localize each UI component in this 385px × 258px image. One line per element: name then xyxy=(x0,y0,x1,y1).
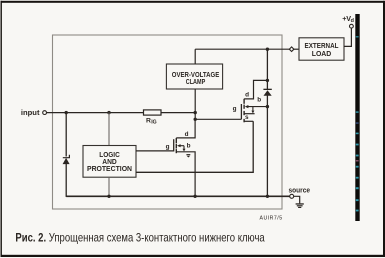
wire logic to Q2 gate xyxy=(136,150,174,152)
svg-text:LOGIC: LOGIC xyxy=(99,152,120,159)
svg-text:g: g xyxy=(233,105,237,112)
svg-text:Рис. 2. Упрощенная схема 3-кон: Рис. 2. Упрощенная схема 3-контактного н… xyxy=(15,232,265,245)
svg-text:input: input xyxy=(21,108,40,117)
junction Q2 source rail xyxy=(193,195,196,198)
svg-text:d: d xyxy=(245,91,249,98)
wire input to resistor xyxy=(47,112,144,114)
svg-text:AUIR7/5: AUIR7/5 xyxy=(260,215,283,221)
junction node resistor/clamp xyxy=(194,111,197,114)
wire node to node vertical xyxy=(194,113,196,120)
Q2 substrate mark xyxy=(186,154,190,157)
wire logic box to rail xyxy=(108,177,110,196)
svg-text:AND: AND xyxy=(102,159,117,166)
external load box xyxy=(299,38,344,60)
svg-text:d: d xyxy=(185,131,189,138)
caption xyxy=(15,232,265,245)
over-voltage clamp box xyxy=(166,64,222,89)
Vdd terminal xyxy=(350,24,354,28)
transistor Q1 (power MOSFET) xyxy=(241,99,267,123)
wire drain column upper xyxy=(266,49,268,89)
svg-text:b: b xyxy=(187,142,191,149)
bottom source rail xyxy=(66,195,289,197)
svg-text:PROTECTION: PROTECTION xyxy=(87,166,132,173)
wire logic to Q1 sense source xyxy=(136,121,253,172)
junction Q1 body / diode xyxy=(266,105,269,108)
logic and protection box U1 xyxy=(83,146,136,178)
wire input node to logic box xyxy=(108,113,110,146)
svg-text:IG: IG xyxy=(151,120,156,126)
svg-text:LOAD: LOAD xyxy=(312,51,332,58)
wire drain column lower to rail xyxy=(266,96,268,197)
svg-text:b: b xyxy=(257,97,261,104)
resistor RIG xyxy=(144,110,162,126)
wire Q1 drain to drain node xyxy=(244,80,267,99)
wire clamp bottom xyxy=(194,89,196,113)
input terminal xyxy=(43,111,47,115)
part number text xyxy=(260,215,283,221)
transistor Q2 (sense FET) xyxy=(174,138,186,153)
Q2 pin label d xyxy=(185,131,189,138)
junction Q1 drain / diode xyxy=(266,79,269,82)
svg-text:d: d xyxy=(351,18,354,24)
junction input-zener xyxy=(65,111,68,114)
Q1 pin label s xyxy=(245,114,249,121)
input label xyxy=(21,108,40,117)
wire zener to rail xyxy=(65,164,67,197)
junction input-logic xyxy=(107,111,110,114)
source label xyxy=(289,188,311,195)
wire clamp top xyxy=(194,49,196,64)
junction top rail / diode column xyxy=(266,48,269,51)
+Vdd label xyxy=(342,14,354,24)
IC outline box xyxy=(53,35,283,209)
wire resistor to node xyxy=(161,112,195,114)
wire gate node to Q1 gate xyxy=(195,118,241,120)
zener diode xyxy=(63,155,70,164)
svg-text:CLAMP: CLAMP xyxy=(186,79,206,86)
ground xyxy=(296,203,304,208)
wire zener branch upper xyxy=(65,113,67,157)
junction gate node xyxy=(194,118,197,121)
wire external load to Vdd terminal xyxy=(344,28,351,46)
Q2 pin label g xyxy=(166,143,170,150)
wire Q2 source down to rail xyxy=(176,152,195,197)
svg-text:EXTERNAL: EXTERNAL xyxy=(305,43,339,50)
wire Q1 sense lead xyxy=(244,120,253,122)
wire terminal to external load xyxy=(294,48,299,50)
Q1 pin label g xyxy=(233,105,237,112)
junction diode column rail xyxy=(266,195,269,198)
wire Q2 drain up to gate node xyxy=(176,119,195,138)
wire top drain rail xyxy=(195,48,289,50)
wire source to ground xyxy=(294,196,300,203)
svg-text:g: g xyxy=(166,143,170,150)
thick page rule xyxy=(355,14,359,221)
junction logic-rail xyxy=(107,195,110,198)
svg-text:OVER-VOLTAGE: OVER-VOLTAGE xyxy=(172,72,220,79)
svg-text:source: source xyxy=(289,188,311,195)
source terminal xyxy=(290,194,294,198)
diode D1 xyxy=(263,89,271,96)
svg-text:s: s xyxy=(245,114,249,121)
Q2 pin label b xyxy=(187,142,191,149)
Q1 pin label d xyxy=(245,91,249,98)
Q1 pin label b xyxy=(257,97,261,104)
drain output terminal (diamond) xyxy=(289,47,294,52)
